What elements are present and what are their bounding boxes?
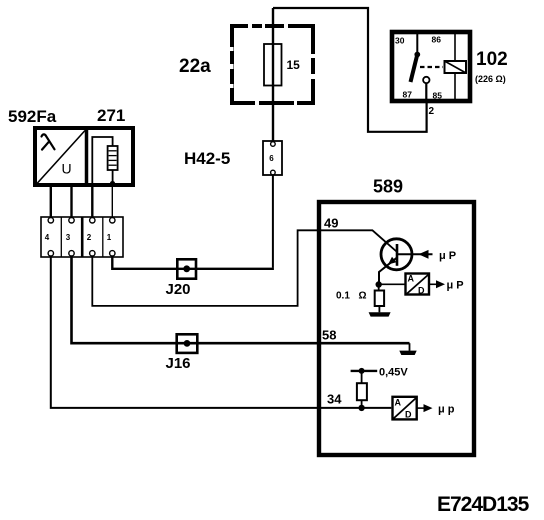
svg-text:2: 2	[87, 233, 92, 242]
wire node to AD1	[379, 283, 405, 285]
ECU box 589	[319, 202, 474, 455]
relay coil wire 85	[454, 73, 456, 101]
fuse box 22a	[232, 26, 313, 103]
wire connector pin 4 to ECU pin 34	[51, 256, 392, 408]
heater element 271	[92, 137, 117, 184]
svg-text:μ p: μ p	[438, 404, 455, 416]
svg-text:J16: J16	[166, 355, 191, 372]
A/D converter 2	[393, 397, 417, 420]
wire sensor pin to connector pin 3	[70, 187, 72, 218]
svg-text:0.1: 0.1	[336, 291, 350, 302]
relay pivot dot	[414, 52, 420, 58]
relay terminal 30 line	[416, 32, 418, 52]
wire sensor pin to connector pin 1	[111, 186, 113, 218]
svg-text:85: 85	[433, 91, 443, 101]
svg-text:4: 4	[45, 233, 50, 242]
svg-text:U: U	[62, 161, 72, 177]
svg-text:102: 102	[476, 49, 508, 70]
svg-text:J20: J20	[166, 281, 191, 298]
wire sensor pin to connector pin 2	[91, 187, 93, 218]
svg-text:2: 2	[429, 106, 435, 117]
transistor Q1	[381, 239, 412, 270]
connector block	[41, 217, 123, 257]
svg-text:15: 15	[287, 58, 301, 72]
svg-text:589: 589	[373, 177, 403, 197]
svg-text:30: 30	[395, 36, 405, 46]
svg-text:Ω: Ω	[359, 291, 367, 302]
svg-text:271: 271	[97, 106, 125, 125]
joint J16	[177, 334, 198, 353]
svg-text:D: D	[418, 286, 425, 296]
wire H42-5 down to J20 corner	[272, 175, 274, 268]
AD2 output arrow to uP	[417, 404, 433, 412]
relay contact to pin 2 wire	[425, 83, 427, 101]
AD1 output arrow to uP	[430, 280, 446, 288]
relay coil wire 86	[454, 32, 456, 61]
ground for pin 58	[399, 343, 416, 355]
relay coil	[445, 61, 467, 73]
svg-text:H42-5: H42-5	[184, 149, 230, 168]
emitter with arrow	[379, 257, 397, 283]
wire through fuse	[272, 8, 274, 141]
svg-text:A: A	[408, 274, 415, 284]
junction dot on sensor box	[110, 181, 115, 186]
fuse element F15	[264, 44, 282, 86]
svg-text:1: 1	[107, 233, 112, 242]
wire sensor pin to connector pin 4	[50, 187, 52, 218]
svg-text:0,45V: 0,45V	[379, 367, 408, 379]
resistor 0.1 ohm	[375, 285, 384, 313]
relay mechanical link dashed	[420, 66, 443, 68]
junction node pin34	[358, 405, 364, 411]
relay contact circle	[423, 77, 429, 83]
lambda symbol	[42, 134, 55, 149]
relay terminal labels	[395, 35, 442, 101]
svg-text:μ P: μ P	[439, 250, 456, 262]
svg-text:58: 58	[322, 328, 336, 343]
relay switch armature	[411, 55, 418, 83]
diagonal divider line	[37, 131, 85, 184]
svg-text:D: D	[405, 410, 412, 420]
svg-text:3: 3	[66, 233, 71, 242]
connector pin circles bottom row	[48, 251, 115, 256]
wire connector pin 2 to ECU pin 49	[92, 230, 396, 306]
joint J20	[177, 259, 196, 278]
svg-text:(226 Ω): (226 Ω)	[475, 74, 506, 84]
bias supply 0.45V	[351, 368, 378, 383]
svg-text:49: 49	[324, 216, 338, 231]
collector line to uP	[397, 253, 433, 255]
svg-text:A: A	[395, 398, 402, 408]
svg-text:87: 87	[403, 90, 413, 100]
connector pin circles top row	[48, 218, 115, 223]
svg-text:E724D135: E724D135	[437, 493, 530, 516]
arrow into collector	[419, 250, 429, 259]
label 0.1 ohm	[336, 291, 367, 302]
bias resistor	[357, 383, 367, 408]
svg-text:μ P: μ P	[447, 280, 464, 292]
wire connector pin 3 to J16 to ECU pin 58	[72, 256, 410, 344]
svg-text:6: 6	[269, 154, 274, 163]
svg-text:592Fa: 592Fa	[8, 107, 57, 126]
wire connector pin 1 to J20 to H42-5	[112, 256, 274, 269]
svg-text:22a: 22a	[179, 56, 211, 77]
connector H42-5 box 6	[263, 141, 282, 175]
wire top rail fuse to relay pin 2	[273, 8, 427, 132]
connector pin numbers 4 3 2 1	[45, 233, 112, 242]
A/D converter 1	[406, 274, 430, 296]
svg-text:34: 34	[327, 392, 342, 407]
lambda sensor box 592Fa	[35, 128, 133, 185]
junction node emitter	[376, 281, 382, 287]
relay 102 box	[392, 32, 470, 101]
ground under resistor	[369, 312, 391, 316]
svg-text:86: 86	[432, 35, 442, 45]
